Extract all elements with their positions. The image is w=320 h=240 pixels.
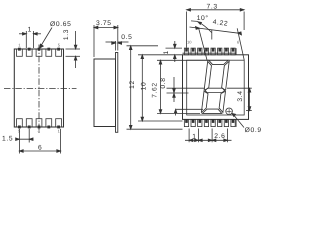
dim 0.5 lead [106,41,129,51]
centerline horizontal [4,88,77,90]
pad P3 top [36,48,42,56]
dim 1 pin length front [166,41,183,62]
svg-text:Ø0.65: Ø0.65 [50,21,71,28]
segment A [208,60,228,64]
svg-text:1: 1 [28,26,32,33]
pad P8 bottom [36,119,42,128]
svg-text:10: 10 [187,40,192,45]
pad P9 bottom [46,119,52,128]
svg-text:5: 5 [58,42,61,47]
front top lead bars [184,48,235,55]
segment G [205,88,225,92]
dim 7.3 front width [187,9,245,48]
segment B [221,61,229,90]
dim 6 pad span [19,129,60,154]
pad P10 bottom [56,119,62,128]
pad P6 bottom [17,119,23,128]
digit U1 seven segment [201,60,229,113]
dim 3.4 [246,88,252,110]
pad P1 top [17,48,23,56]
dim 1.3 pad length [66,31,81,68]
centerline vertical [38,45,40,134]
pad P4 top [46,48,52,56]
svg-text:7.3: 7.3 [207,3,218,10]
front top band end line [235,48,237,55]
front top band bottom line [183,52,237,54]
svg-text:3.4: 3.4 [237,90,244,101]
dim 1 pad width [19,31,41,48]
dim 12 overall height [127,46,183,129]
dim leader O0.65 [40,28,52,49]
dim 10deg angle [191,21,212,40]
dim 0.8 segment width [167,77,252,116]
svg-text:1: 1 [192,133,196,140]
segment D [202,109,222,113]
top view body [14,49,63,127]
segment F [204,61,212,90]
svg-text:5: 5 [18,128,21,133]
dim 3.75 depth [94,25,118,57]
svg-text:4.22: 4.22 [212,19,228,28]
dim 7.62 digit height [157,60,209,113]
svg-text:10°: 10° [197,15,209,22]
front view body [183,55,249,120]
svg-text:1.3: 1.3 [63,29,70,40]
svg-text:2.6: 2.6 [214,133,225,140]
svg-text:12: 12 [129,80,136,89]
segment C [219,91,226,112]
dim 4.22 digit width [190,27,245,61]
side view body [94,59,116,127]
front bottom band end line [235,119,237,127]
svg-text:1.5: 1.5 [2,136,13,143]
dim 1.5 pitch [16,129,34,143]
decimal point DP [226,108,233,115]
svg-text:Ø0.9: Ø0.9 [245,127,262,134]
svg-text:0.5: 0.5 [121,34,132,41]
dim 10 body height [138,55,183,121]
dim 1 front pin chain [185,129,232,143]
svg-text:6: 6 [38,144,42,151]
pad P5 top [56,48,62,56]
pad P2 top [26,48,32,56]
front bottom lead bars [184,119,235,126]
svg-text:1: 1 [163,50,170,54]
svg-text:3.75: 3.75 [96,20,112,27]
svg-text:1: 1 [18,42,21,47]
svg-text:1: 1 [58,128,61,133]
side view lead strip [116,53,118,133]
front view bezel [187,60,245,115]
svg-text:4: 4 [38,128,41,133]
svg-text:0.8: 0.8 [160,77,167,88]
dim leader O0.9 [232,113,244,127]
segment E [201,91,208,112]
svg-text:10: 10 [140,82,147,91]
pad P7 bottom [26,119,32,128]
svg-text:7.62: 7.62 [152,82,159,98]
